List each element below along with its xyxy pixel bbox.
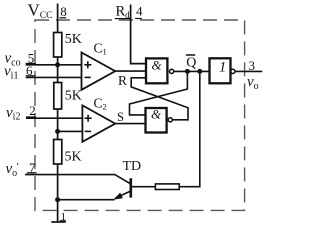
wire divider node to C2 - input bbox=[58, 130, 83, 132]
wire R2 to R3 bbox=[57, 109, 59, 140]
pin 2 wire to C2 + input bbox=[26, 117, 82, 119]
svg-text:5K: 5K bbox=[65, 150, 82, 165]
label R_d bbox=[115, 4, 131, 21]
node Q-bar dot 2 bbox=[197, 69, 202, 74]
G2 output bubble bbox=[168, 118, 172, 122]
svg-text:vo: vo bbox=[247, 74, 259, 92]
resistor R3 (5K bottom) bbox=[54, 140, 62, 165]
transistor TD base wire bbox=[132, 186, 156, 188]
NAND gate G1 box bbox=[146, 58, 167, 83]
resistor R2 (5K middle) bbox=[54, 83, 62, 110]
pin 3 wire (output) bbox=[235, 70, 262, 72]
svg-text:vo: vo bbox=[6, 161, 18, 179]
op-amp comparator C2 bbox=[82, 105, 115, 141]
svg-text:4: 4 bbox=[136, 4, 143, 19]
node: divider upper node dot bbox=[55, 62, 60, 67]
svg-text:TD: TD bbox=[123, 159, 142, 174]
wire B: G2 output to G1 lower input (cross coupling) bbox=[131, 78, 188, 120]
svg-text:R: R bbox=[118, 73, 127, 88]
pin 4 number bbox=[135, 4, 143, 19]
pin 6 number bbox=[26, 63, 36, 78]
pin 7 wire to transistor collector bbox=[25, 175, 131, 184]
pin 6 wire to C1 - input bbox=[26, 76, 82, 78]
label VCC bbox=[28, 1, 53, 22]
svg-text:&: & bbox=[152, 58, 163, 73]
wire base resistor to Q-bar node bbox=[179, 71, 200, 186]
wire R1 to R2 bbox=[57, 57, 59, 83]
IC dashed boundary box bbox=[35, 20, 245, 210]
wire Q-bar line to inverter bbox=[174, 70, 210, 72]
NAND gate G2 box bbox=[146, 108, 167, 133]
svg-text:&: & bbox=[151, 107, 162, 122]
svg-text:Q: Q bbox=[186, 56, 196, 71]
G1 output bubble bbox=[170, 69, 174, 73]
wire C2 output to gate G2 (S input) bbox=[115, 123, 145, 125]
pin 7 number bbox=[27, 160, 37, 175]
C2 minus sign bbox=[85, 130, 91, 132]
svg-text:5K: 5K bbox=[65, 89, 82, 104]
C1 minus sign bbox=[85, 76, 91, 78]
transistor TD emitter with arrow bbox=[116, 191, 131, 198]
svg-text:C1: C1 bbox=[94, 41, 107, 57]
pin 8 number bbox=[59, 4, 66, 19]
op-amp comparator C1 bbox=[82, 53, 116, 90]
transistor TD base bar bbox=[130, 178, 133, 197]
svg-text:C2: C2 bbox=[94, 96, 107, 112]
C2 plus sign bbox=[85, 115, 92, 122]
svg-text:Rd: Rd bbox=[116, 4, 131, 21]
svg-text:1: 1 bbox=[219, 59, 226, 75]
node Q-bar dot 1 bbox=[185, 69, 190, 74]
wire R3 to ground bbox=[57, 164, 59, 222]
node: divider lower node dot bbox=[55, 129, 60, 134]
wire emitter to ground node bbox=[58, 199, 115, 201]
label Q-bar bbox=[186, 55, 197, 71]
svg-text:3: 3 bbox=[249, 58, 256, 73]
ground pin 1 bbox=[51, 211, 66, 223]
inverter output bubble bbox=[231, 69, 235, 73]
C1 plus sign bbox=[84, 61, 91, 68]
pin 4 wire (reset) to gate G1 top input bbox=[131, 5, 146, 64]
pin 8 wire (VCC) bbox=[57, 4, 59, 34]
pin 5 number bbox=[26, 51, 36, 66]
svg-text:8: 8 bbox=[60, 4, 67, 19]
wire C1 output to gate G1 (R input) bbox=[115, 70, 146, 72]
svg-text:2: 2 bbox=[29, 103, 36, 118]
wire A: Q-bar to G2 upper input (cross coupling) bbox=[130, 71, 188, 115]
svg-text:vi2: vi2 bbox=[6, 105, 20, 123]
svg-text:′: ′ bbox=[17, 161, 19, 173]
resistor base R bbox=[155, 184, 179, 190]
svg-text:S: S bbox=[117, 110, 124, 124]
pin 5 wire to node and C1 + input bbox=[26, 64, 82, 66]
node: emitter/divider/ground junction dot bbox=[55, 197, 60, 202]
svg-text:VCC: VCC bbox=[28, 1, 53, 22]
resistor R1 (5K top) bbox=[54, 33, 62, 58]
inverter box bbox=[210, 58, 231, 83]
pin 2 number bbox=[26, 103, 36, 118]
svg-text:5K: 5K bbox=[65, 32, 82, 47]
